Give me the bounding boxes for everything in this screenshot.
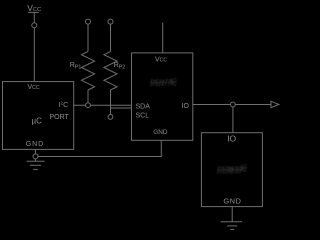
node SDA junction (86, 103, 91, 108)
svg-text:GND: GND (26, 141, 44, 148)
label DS28E50 part number (217, 164, 248, 176)
power symbol VCC (microcontroller supply) (28, 11, 39, 13)
wire VCC stub (DS2477) (162, 23, 164, 53)
svg-text:GND: GND (153, 129, 168, 136)
wire VCC bar to terminal (33, 12, 35, 22)
microcontroller U1 box (3, 82, 74, 150)
node IO junction (231, 102, 236, 107)
svg-text:µC: µC (32, 117, 43, 126)
wire µC GND pin (35, 149, 37, 154)
node VCC terminal (32, 23, 37, 28)
svg-text:SDA: SDA (136, 104, 151, 111)
wire VCC terminal to microcontroller box (33, 28, 35, 82)
wire SCL stub to DS2477 (111, 107, 132, 109)
svg-text:GND: GND (223, 196, 241, 205)
svg-text:DS28E50: DS28E50 (217, 170, 242, 176)
wire IO to slave box (232, 107, 234, 133)
svg-text:VCC: VCC (28, 84, 40, 91)
svg-text:IC: IC (170, 78, 177, 85)
node SCL terminal (108, 115, 113, 120)
svg-text:VCC: VCC (155, 57, 167, 64)
svg-text:SCL: SCL (136, 113, 150, 120)
svg-text:IC: IC (241, 164, 248, 171)
wire GND bus from junction to DS2477 (38, 140, 161, 156)
off-page arrow (IO) (271, 101, 279, 107)
ground (right) (221, 222, 243, 230)
wire IO (193, 104, 271, 106)
resistor RP1 (81, 19, 94, 102)
resistor RP2 (104, 19, 117, 114)
svg-text:IO: IO (182, 103, 190, 110)
svg-text:I2C: I2C (59, 101, 69, 110)
node GND junction (33, 154, 38, 159)
svg-text:IO: IO (227, 133, 236, 143)
wire SDA (I2C PORT to DS2477) (74, 104, 132, 106)
label DS2477 part number (150, 78, 177, 88)
ground (left) (27, 159, 45, 170)
svg-text:DS2477: DS2477 (150, 82, 171, 88)
IC U3 1-Wire slave box (201, 133, 262, 207)
IC U2 DS2477 box (132, 53, 193, 140)
svg-text:PORT: PORT (50, 114, 70, 121)
wire slave GND pin (231, 207, 233, 222)
